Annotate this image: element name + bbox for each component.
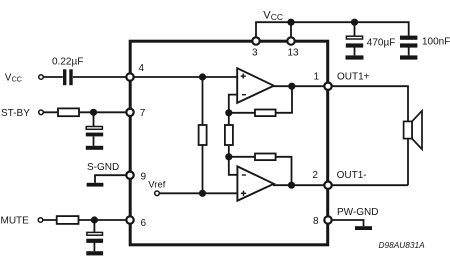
svg-text:OUT1+: OUT1+ [337, 72, 370, 83]
svg-text:100nF: 100nF [422, 37, 450, 48]
svg-text:MUTE: MUTE [1, 216, 30, 227]
svg-text:6: 6 [141, 218, 147, 229]
svg-text:3: 3 [252, 48, 258, 59]
svg-text:470µF: 470µF [367, 37, 396, 48]
svg-text:7: 7 [140, 108, 146, 119]
svg-text:CC: CC [271, 12, 283, 22]
svg-text:Vref: Vref [148, 180, 165, 191]
svg-text:1: 1 [314, 72, 320, 83]
svg-text:OUT1-: OUT1- [337, 170, 367, 181]
svg-text:2: 2 [312, 170, 318, 181]
svg-text:4: 4 [139, 63, 145, 74]
svg-text:9: 9 [141, 171, 147, 182]
svg-text:PW-GND: PW-GND [337, 207, 378, 218]
svg-text:S-GND: S-GND [87, 162, 119, 173]
svg-text:ST-BY: ST-BY [1, 108, 30, 119]
svg-text:CC: CC [12, 75, 22, 84]
svg-text:13: 13 [288, 48, 300, 59]
svg-text:D98AU831A: D98AU831A [379, 240, 426, 250]
svg-text:8: 8 [313, 216, 319, 227]
svg-text:0.22µF: 0.22µF [52, 57, 83, 68]
